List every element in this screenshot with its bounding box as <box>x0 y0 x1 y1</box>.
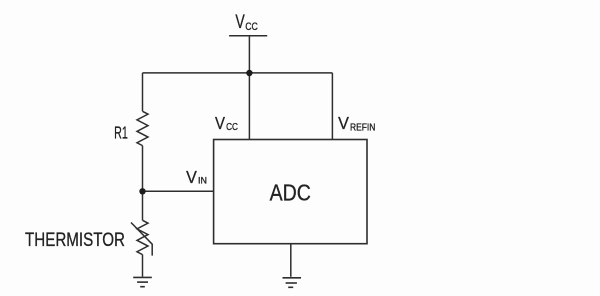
pin label VIN <box>186 167 207 187</box>
svg-text:V: V <box>186 167 197 187</box>
wire Vcc pin of ADC <box>248 73 250 140</box>
thermistor strike line <box>131 223 152 256</box>
svg-text:REFIN: REFIN <box>350 123 375 134</box>
wire R1 to node VIN <box>142 146 144 192</box>
svg-text:R1: R1 <box>114 123 128 143</box>
wire top horizontal rail <box>143 72 333 74</box>
junction node at VIN <box>139 188 145 194</box>
wire VIN to ADC <box>143 190 214 192</box>
wire left rail down to R1 <box>142 73 144 111</box>
resistor R1 <box>137 111 148 145</box>
wire Vrefin pin of ADC <box>331 73 333 140</box>
thermistor RT body <box>137 220 148 254</box>
op block ADC box U1 <box>214 140 367 244</box>
svg-text:ADC: ADC <box>270 180 311 206</box>
svg-text:V: V <box>235 12 245 33</box>
junction node at Vcc rail <box>246 70 252 76</box>
svg-text:IN: IN <box>198 175 207 185</box>
pin label Vcc (ADC) <box>215 113 238 133</box>
net label Vcc (top) <box>235 12 258 33</box>
ground (ADC) <box>283 278 302 288</box>
power symbol Vcc bar <box>229 35 267 37</box>
pin label VREFIN <box>338 113 375 134</box>
svg-text:V: V <box>338 113 349 133</box>
svg-text:CC: CC <box>226 122 238 133</box>
ground (left) <box>133 277 152 286</box>
svg-text:THERMISTOR: THERMISTOR <box>25 230 125 251</box>
svg-text:V: V <box>215 113 225 133</box>
wire ADC ground lead <box>290 244 292 277</box>
wire thermistor to ground <box>142 255 144 277</box>
wire node to thermistor <box>142 191 144 220</box>
svg-text:CC: CC <box>245 21 258 33</box>
wire Vcc bar to junction <box>248 36 250 73</box>
